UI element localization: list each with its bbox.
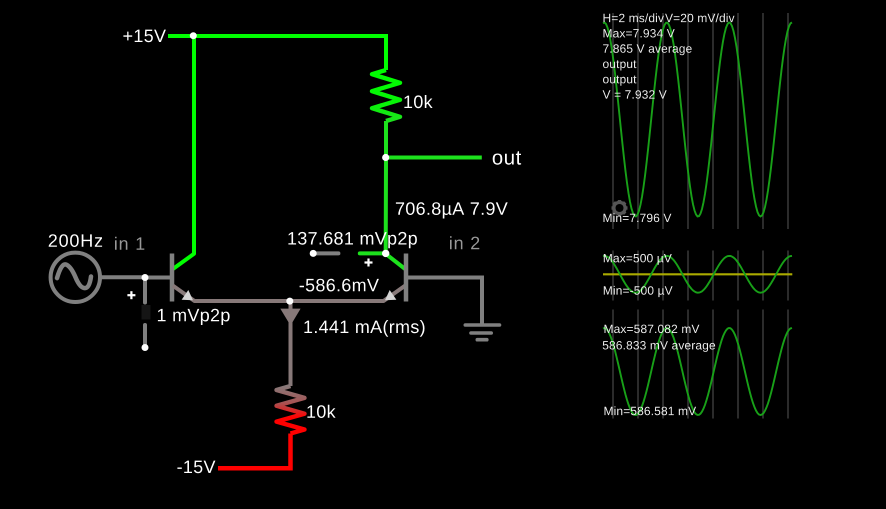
scope 1 label average	[603, 44, 692, 55]
label emitter voltage -586.6mV	[300, 279, 379, 292]
scope 1 label V=20 mV/div	[665, 13, 734, 22]
scope 2 gridlines	[613, 251, 788, 301]
scope 3 label Min	[605, 406, 697, 415]
label node in 1	[115, 237, 144, 250]
probe P1 plus sign	[127, 291, 135, 299]
transistor Q2 emitter arrow	[385, 290, 396, 300]
scope 2 label Min	[604, 286, 673, 297]
transistor Q2 base lead to ground	[408, 278, 482, 326]
transistor Q2 base bar	[404, 254, 409, 302]
rail +15V stub	[168, 34, 193, 38]
probe P1 gap mark	[142, 305, 151, 320]
label V1 200Hz	[49, 234, 102, 247]
transistor Q1 base bar	[170, 254, 175, 302]
ac rail V1 200Hz circle	[51, 253, 100, 302]
label P2 value 137.681 mVp2p	[288, 232, 417, 248]
rail -15V label	[177, 461, 215, 474]
scope 1 settings gear	[612, 200, 628, 216]
wire ac rail to Q1 base	[100, 275, 145, 279]
scope 3 trace emitter	[603, 328, 792, 415]
scope 1 gridlines	[613, 13, 788, 229]
label wire current voltage 706.8uA 7.9V	[396, 202, 508, 218]
probe P2 post	[310, 250, 317, 257]
probe P2 right stub	[360, 251, 383, 255]
probe P1 post	[142, 344, 149, 351]
wire out	[386, 156, 482, 160]
wire R1 top lead	[384, 34, 388, 70]
scope 1 label Max	[604, 29, 675, 38]
scope 3 label average	[603, 341, 715, 352]
probe P1 top stub	[143, 278, 147, 303]
label R2 value 10k	[307, 405, 335, 418]
ground G1	[465, 325, 499, 340]
junction node Q1 base	[142, 274, 149, 281]
transistor Q1 emitter lead and emitter bus to Q2 emitter	[173, 286, 405, 301]
scope 2 trace in 1	[603, 256, 792, 293]
scope 3 gridlines	[613, 310, 788, 419]
junction node emitters	[286, 298, 293, 305]
probe P2 plus sign	[365, 259, 373, 267]
label P1 value 1 mVp2p	[158, 309, 230, 325]
ammeter A1 arrow	[280, 309, 300, 326]
ac rail V1 sine symbol	[57, 264, 91, 288]
scope 1 trace output	[603, 23, 792, 217]
label R1 value 10k	[404, 95, 432, 108]
scope 1 label Min	[604, 213, 672, 222]
scope 1 label H=2 ms/div	[604, 13, 664, 22]
probe P2 left stub	[313, 251, 338, 255]
transistor Q1 base lead	[145, 276, 171, 280]
wire +15V top rail horizontal	[193, 34, 386, 38]
resistor R2 10k	[277, 386, 305, 434]
scope 2 trace in 2 flat	[603, 273, 792, 275]
scope 1 label output 2	[603, 76, 636, 86]
resistor R1 10k	[372, 70, 400, 121]
label A1 value 1.441 mA(rms)	[304, 320, 424, 337]
label node in 2	[450, 236, 479, 249]
junction node out	[382, 154, 389, 161]
scope 1 label V value	[603, 90, 667, 99]
junction node Q2 collector	[382, 250, 389, 257]
wire +15V rail to Q1 collector	[173, 36, 194, 269]
rail +15V label	[123, 30, 165, 43]
wire R1 bottom lead to out node	[384, 121, 388, 158]
wire R2 to -15V corner	[218, 434, 291, 469]
transistor Q1 emitter arrow	[182, 290, 193, 300]
scope 2 label Max	[604, 254, 672, 265]
probe P1 bottom stub	[143, 325, 147, 348]
label node out	[493, 151, 521, 165]
ammeter A1 wire	[289, 301, 293, 386]
scope 1 label output 1	[603, 60, 636, 70]
scope 3 label Max	[605, 325, 700, 334]
wire out node to Q2 collector	[386, 158, 405, 270]
junction node +15V	[190, 32, 197, 39]
